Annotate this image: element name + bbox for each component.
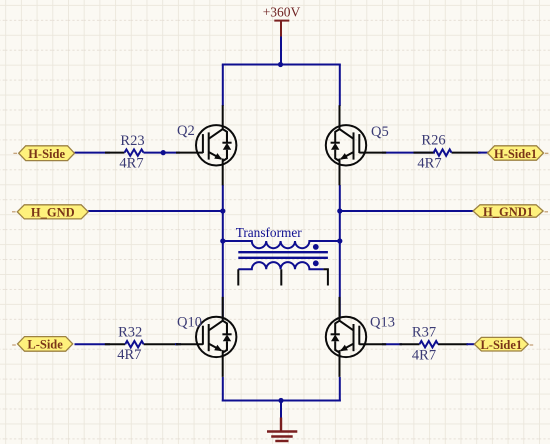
wire right column middle: Q5 emitter to Q13 collector bbox=[339, 185, 341, 317]
port H-Side bbox=[19, 146, 75, 161]
port L-Side1 bbox=[474, 337, 528, 351]
resistor R37 bbox=[420, 341, 439, 347]
wire H-Side port to R23 bbox=[75, 152, 111, 154]
resistor R26 bbox=[434, 149, 452, 155]
wire segment R32 left pin (black) bbox=[105, 343, 125, 345]
svg-text:L-Side: L-Side bbox=[27, 338, 63, 352]
svg-text:R26: R26 bbox=[421, 133, 445, 149]
wire right column lower: Q13 emitter to bottom rail bbox=[339, 377, 341, 402]
stub mark right of H-Side1 port bbox=[545, 152, 549, 154]
wire bottom rail bbox=[222, 400, 341, 402]
port H-Side1 bbox=[488, 146, 544, 160]
wire segment R26 right pin (black) bbox=[452, 152, 481, 154]
wire R26 to H-Side1 port bbox=[478, 152, 489, 154]
svg-text:R23: R23 bbox=[120, 133, 144, 149]
port H_GND bbox=[17, 205, 88, 219]
stub mark left of H_GND port bbox=[12, 211, 16, 213]
port L-Side bbox=[18, 337, 73, 352]
svg-text:4R7: 4R7 bbox=[117, 347, 141, 363]
junction bottom rail / ground bbox=[278, 398, 283, 403]
transformer primary polarity dot bbox=[313, 244, 319, 250]
transistor Q10 (IGBT with freewheel diode) bbox=[176, 297, 236, 377]
wire segment R37 right pin (black) bbox=[438, 343, 468, 345]
stub mark right of H_GND1 port bbox=[545, 211, 549, 213]
wire +360V drop to top rail bbox=[280, 36, 282, 65]
wire right column upper: top rail to Q5 collector pin bbox=[339, 65, 341, 107]
power port +360V bbox=[274, 21, 289, 37]
svg-text:H-Side1: H-Side1 bbox=[494, 147, 537, 161]
transistor Q2 (IGBT with freewheel diode) bbox=[176, 105, 236, 185]
svg-text:H_GND1: H_GND1 bbox=[483, 205, 533, 219]
junction H_GND / left column bbox=[220, 208, 225, 213]
junction H_GND1 / right column bbox=[337, 208, 342, 213]
wire left column lower: Q10 emitter to bottom rail bbox=[222, 377, 224, 402]
svg-text:H-Side: H-Side bbox=[28, 147, 65, 161]
svg-text:4R7: 4R7 bbox=[412, 348, 436, 364]
svg-text:L-Side1: L-Side1 bbox=[480, 338, 522, 352]
wire segment R23 left pin (black) bbox=[105, 152, 125, 154]
svg-text:+360V: +360V bbox=[263, 5, 301, 20]
wire bottom rail to ground bbox=[280, 401, 282, 419]
wire segment R37 left pin (black) bbox=[400, 343, 420, 345]
svg-text:R32: R32 bbox=[118, 325, 142, 341]
transformer secondary polarity dot bbox=[313, 260, 319, 266]
svg-text:4R7: 4R7 bbox=[119, 156, 143, 172]
stub mark left of H-Side port bbox=[13, 152, 17, 154]
ground symbol (power ground) bbox=[267, 418, 297, 442]
junction top rail / +360V bbox=[278, 62, 283, 67]
wire R37 to L-Side1 port bbox=[467, 343, 476, 345]
svg-text:Q13: Q13 bbox=[370, 315, 395, 331]
transformer secondary right tap pin bbox=[323, 269, 328, 285]
transistor Q13 (IGBT with freewheel diode) bbox=[326, 297, 386, 377]
wire left column middle: Q2 emitter to Q10 collector through H_GND and transformer taps bbox=[222, 185, 224, 317]
svg-text:R37: R37 bbox=[412, 325, 436, 341]
junction transformer primary left / left column bbox=[220, 238, 225, 243]
resistor R32 bbox=[125, 341, 143, 347]
transformer secondary winding bbox=[238, 262, 323, 269]
transformer secondary center tap pin bbox=[280, 269, 282, 285]
wire R32 to Q10 gate bbox=[175, 343, 181, 345]
port H_GND1 bbox=[473, 205, 543, 217]
transformer core lines bbox=[238, 252, 328, 258]
junction transformer primary right / right column bbox=[337, 238, 342, 243]
transformer secondary left tap pin bbox=[237, 269, 239, 285]
transformer primary winding bbox=[223, 241, 340, 248]
stub mark right of L-Side1 port bbox=[530, 344, 534, 346]
wire top rail from Q2 collector to Q5 collector bbox=[222, 64, 341, 66]
resistor R23 bbox=[125, 149, 144, 155]
wire Q5 gate to R26 bbox=[382, 152, 435, 154]
svg-text:Q2: Q2 bbox=[177, 123, 195, 139]
wire segment R32 right pin (black) bbox=[144, 343, 178, 345]
wire H_GND port to left column bbox=[88, 210, 223, 212]
wire right column to H_GND1 port bbox=[340, 210, 474, 212]
svg-text:4R7: 4R7 bbox=[417, 156, 441, 172]
wire left column upper: top rail to Q2 collector pin bbox=[222, 65, 224, 107]
svg-text:Q5: Q5 bbox=[371, 124, 389, 140]
wire L-Side port to R32 bbox=[75, 343, 111, 345]
wire R23 to Q2 gate bbox=[144, 152, 181, 154]
svg-text:H_GND: H_GND bbox=[31, 206, 75, 220]
svg-text:Transformer: Transformer bbox=[236, 225, 303, 240]
wire segment R26 left pin (black) bbox=[414, 152, 434, 154]
svg-text:Q10: Q10 bbox=[177, 315, 202, 331]
wire Q13 gate to R37 bbox=[382, 343, 402, 345]
junction H-Side gate node bbox=[161, 150, 166, 155]
transistor Q5 (IGBT with freewheel diode) bbox=[326, 105, 386, 185]
stub mark left of L-Side port bbox=[12, 344, 16, 346]
